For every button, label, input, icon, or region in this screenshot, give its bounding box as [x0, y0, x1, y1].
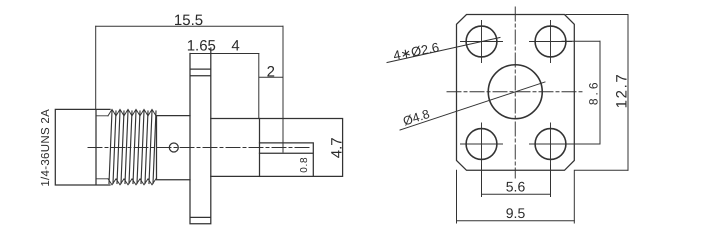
svg-text:15.5: 15.5 [174, 12, 203, 29]
center bore circle 4.8 [488, 65, 542, 119]
svg-text:1/4-36UNS 2A: 1/4-36UNS 2A [40, 109, 52, 187]
thread crest zigzag bottom [108, 179, 156, 185]
body step [259, 119, 261, 177]
crosshair TR [530, 21, 572, 63]
thread flank lines [109, 111, 156, 184]
detent hole on neck [169, 143, 178, 152]
dimension 2 [260, 76, 284, 78]
dimension 1.65 and 4 [190, 54, 259, 119]
svg-text:0.8: 0.8 [299, 157, 310, 173]
center pin 0.8 [260, 143, 314, 177]
svg-text:12.7: 12.7 [614, 73, 631, 109]
svg-text:4.7: 4.7 [328, 137, 345, 158]
thread root lines [96, 116, 108, 179]
nut body [55, 109, 110, 185]
svg-text:8.6: 8.6 [587, 79, 601, 105]
vertical centerline face view [514, 7, 516, 178]
thread crest zigzag top [108, 109, 156, 115]
svg-text:4: 4 [231, 38, 239, 55]
svg-text:2: 2 [267, 64, 275, 81]
leader 4xO2.6 [387, 38, 500, 63]
body behind flange (4.7 dia) [211, 119, 343, 177]
horizontal centerline face view [447, 91, 583, 93]
hole top-right [535, 26, 566, 57]
flange side view [190, 48, 211, 224]
hole bottom-left [466, 129, 497, 160]
crosshair BR [530, 123, 572, 165]
hole top-left [466, 26, 497, 57]
flange face outline (octagon with chamfered corners) [457, 15, 575, 171]
hole bottom-right [535, 129, 566, 160]
crosshair TL [461, 21, 503, 63]
svg-text:5.6: 5.6 [506, 179, 526, 195]
dimension 9.5 [457, 170, 575, 223]
dimension 8.6 [562, 41, 600, 144]
crosshair BL [461, 123, 503, 165]
centerline side view [88, 147, 311, 149]
dimension 5.6 [482, 165, 551, 197]
leader O4.8 [400, 82, 545, 130]
dimension 12.7 [566, 15, 628, 171]
neck between thread and flange [157, 116, 191, 180]
svg-text:1.65: 1.65 [187, 38, 216, 55]
dimension 15.5 [96, 26, 283, 152]
thread end face [156, 116, 158, 179]
svg-text:9.5: 9.5 [506, 205, 526, 221]
